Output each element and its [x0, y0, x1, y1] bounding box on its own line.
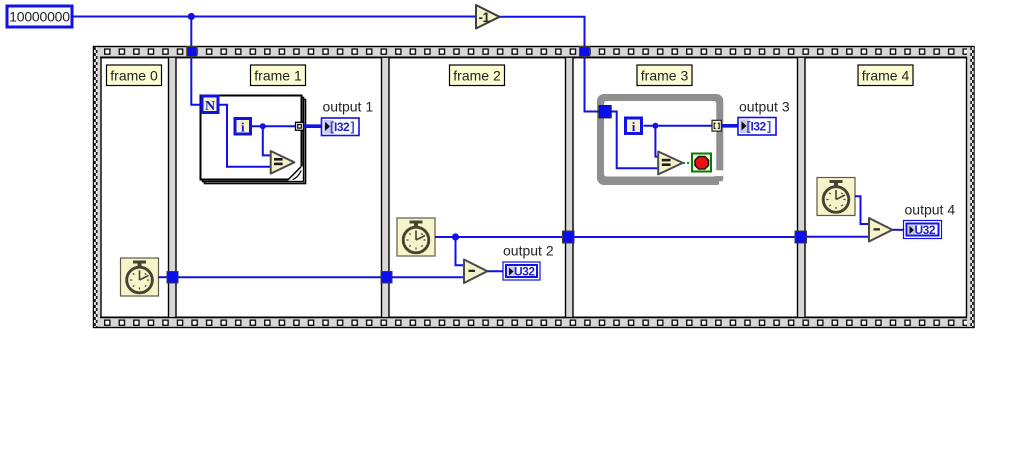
svg-text:frame 1: frame 1 — [254, 68, 302, 84]
frame 2 : Tick Count (ms) clock icon — [397, 218, 435, 256]
wire tunnel T1 down to N — [191, 57, 201, 105]
wire subtract to output 4 — [892, 229, 904, 231]
svg-text:frame 2: frame 2 — [453, 68, 501, 84]
thick array wire to output 1 — [304, 124, 323, 128]
output 2 indicator U32 — [503, 262, 540, 280]
frame 1 label — [251, 65, 306, 86]
svg-text:output 3: output 3 — [739, 99, 790, 115]
wire junction on i (frame 3) — [652, 123, 658, 129]
while loop indexing output tunnel — [712, 120, 721, 131]
frame 3 : while loop border — [597, 94, 723, 185]
wire tunnel to subtract (frame 2) — [392, 276, 465, 278]
svg-text:frame 4: frame 4 — [862, 68, 910, 84]
wire down to sequence tunnel T1 — [190, 17, 192, 48]
thick array wire to output 3 — [721, 124, 738, 128]
wire junction clock2 — [452, 233, 459, 240]
frame 4 label — [858, 65, 913, 86]
wire while tunnel to equal bottom input — [611, 112, 659, 169]
svg-text:i: i — [632, 119, 636, 134]
wire i branch to equal top input — [655, 126, 658, 157]
frame 0 subdiagram — [101, 58, 169, 318]
svg-text:U32: U32 — [514, 265, 535, 279]
frame 4 subdiagram — [805, 58, 967, 318]
svg-text:frame 0: frame 0 — [110, 68, 158, 84]
sequence tunnel T1 (top band, into frame 1) — [187, 46, 197, 56]
while loop input tunnel — [599, 106, 611, 118]
wire junction on i — [260, 123, 266, 129]
wire i to loop tunnel — [251, 125, 296, 127]
frame 1 subdiagram — [176, 58, 382, 318]
for loop folded corner — [288, 167, 303, 181]
svg-text:output 4: output 4 — [905, 202, 956, 218]
svg-text:output 2: output 2 — [503, 243, 554, 259]
condition wire (dotted green) — [683, 162, 692, 164]
while loop condition terminal (stop) — [692, 154, 711, 172]
numeric constant 10000000 — [7, 6, 72, 27]
sequence tunnel frame2|frame3 — [563, 231, 575, 243]
frame 0 : Tick Count (ms) clock icon — [121, 258, 159, 296]
output 3 indicator [I32] — [738, 118, 776, 136]
sequence tunnel T2 (top band, into frame 3) — [580, 46, 590, 56]
while loop iteration terminal i — [626, 118, 642, 134]
wire across frame 1 (ms start) — [178, 276, 381, 278]
wire tunnel to subtract (frame 4) — [807, 236, 871, 238]
flat sequence structure border — [94, 47, 975, 328]
svg-text:frame 3: frame 3 — [641, 68, 689, 84]
wire N to equal bottom input — [219, 105, 272, 167]
wire junction — [188, 13, 195, 20]
output 1 indicator [I32] — [322, 118, 360, 136]
wire clock2 output — [435, 236, 563, 238]
svg-text:I32: I32 — [751, 120, 767, 134]
frame 3 label — [637, 65, 692, 86]
svg-text:10000000: 10000000 — [9, 9, 70, 25]
frame 0 label — [107, 65, 162, 86]
wire clock0 to tunnel — [159, 276, 169, 278]
for loop count terminal N — [202, 96, 218, 114]
wire clock4 to subtract top input — [855, 196, 870, 224]
equal? function (frame 3) — [658, 152, 683, 175]
svg-text:U32: U32 — [915, 223, 936, 237]
frame 2 label — [450, 65, 505, 86]
frame 3 subdiagram — [573, 58, 798, 318]
svg-text:-1: -1 — [479, 10, 491, 25]
frame 4 : Tick Count (ms) clock icon — [817, 178, 855, 216]
svg-text:output 1: output 1 — [323, 99, 374, 115]
svg-text:i: i — [241, 120, 245, 135]
frame 1 : for loop (stacked pages) — [201, 96, 306, 184]
wire decrement to frame-3 tunnel T2 — [500, 17, 585, 47]
for loop iteration terminal i — [235, 119, 251, 135]
wire i to index tunnel — [644, 125, 714, 127]
svg-text:I32: I32 — [334, 120, 350, 134]
sequence tunnel frame0|frame1 — [167, 272, 178, 284]
wire tunnel T2 down into while loop — [585, 57, 600, 112]
sequence tunnel frame3|frame4 — [795, 231, 807, 243]
decrement function -1 — [476, 5, 500, 29]
wire branch to subtract top input — [456, 237, 466, 265]
for loop output tunnel — [296, 122, 304, 130]
wire subtract to output 2 — [487, 270, 504, 272]
wire across frame 3 (ms count) — [574, 236, 795, 238]
wire constant to decrement — [73, 16, 476, 18]
equal? function (frame 1) — [271, 151, 295, 174]
frame 2 subdiagram — [389, 58, 566, 318]
subtract function (frame 4) — [869, 218, 892, 242]
wire i branch to equal top input — [263, 126, 271, 155]
svg-text:N: N — [205, 99, 215, 114]
output 4 indicator U32 — [904, 221, 942, 239]
subtract function (frame 2) — [464, 260, 487, 284]
sequence tunnel frame1|frame2 — [381, 272, 392, 284]
